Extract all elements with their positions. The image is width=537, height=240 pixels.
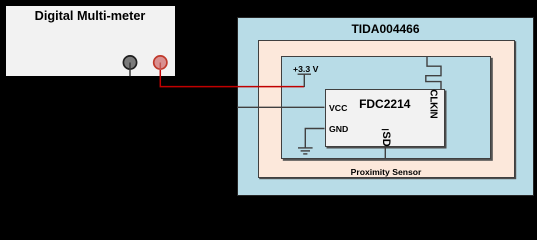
pin label SD (active low) [380,132,392,147]
wire GND pin to ground [305,129,324,148]
wire to VCC pin [237,106,325,108]
probe red terminal [154,56,167,69]
power node +3.3V stem [303,74,305,87]
net label +3.3 V [293,64,318,74]
label TIDA004466 [237,22,534,36]
pin label VCC [329,103,347,113]
block Digital Multi-meter [5,5,176,77]
power node +3.3V bar [298,73,311,75]
IC U1 FDC2214 [325,89,446,147]
probe black stem inside [129,63,131,77]
ground symbol [298,148,313,154]
pin label CLKIN [428,90,439,119]
block inner sensor area [281,56,491,160]
probe red stem inside [159,63,161,71]
block Proximity Sensor board [258,40,515,178]
wire red probe to +3.3V node [160,63,304,87]
probe black terminal [123,56,136,69]
label Proximity Sensor [258,167,514,177]
pin label GND [329,124,348,134]
sensor coil meander [426,56,441,89]
label Digital Multi-meter [5,9,175,23]
label FDC2214 [325,97,446,111]
block TIDA004466 outer board [237,17,534,197]
wire SD pin to board edge [384,147,386,159]
SD overline [382,129,389,131]
